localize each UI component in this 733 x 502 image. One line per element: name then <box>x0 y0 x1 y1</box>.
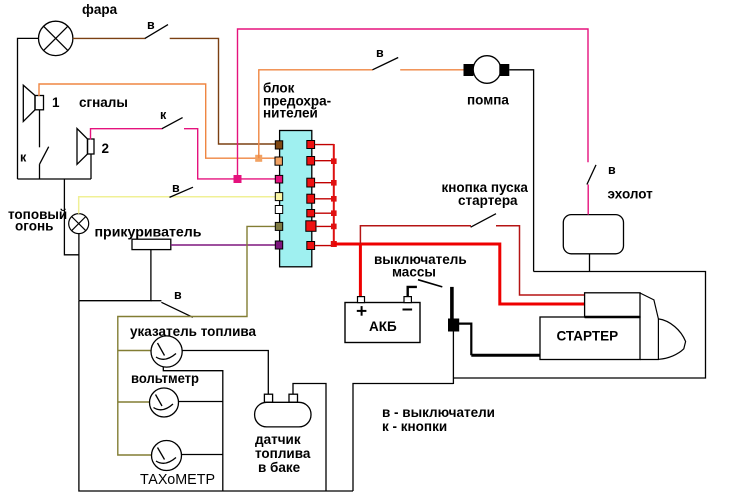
wire right ground loop <box>453 272 705 379</box>
wire magenta riser to echo sounder line <box>238 29 589 175</box>
wire red stubs to bus <box>315 145 334 246</box>
node black square <box>448 319 459 332</box>
wire thick black to node <box>450 287 454 320</box>
starter СТАРТЕР body <box>540 317 640 360</box>
wire magenta button2 to fuse <box>184 129 275 179</box>
mass switch blade <box>418 280 442 287</box>
tank sender left terminal <box>264 394 272 402</box>
svg-text:указатель топлива: указатель топлива <box>130 324 257 339</box>
speaker 2 сигнал <box>77 129 94 165</box>
fuse input terminal 4 yellow <box>275 193 282 201</box>
fuse input terminal 7 purple <box>275 241 282 249</box>
wire to gauges switch <box>151 300 162 302</box>
wire dark red button to solenoid <box>496 226 585 295</box>
junction squares on red bus <box>331 158 337 247</box>
junction magenta <box>234 175 242 183</box>
wire tank sender right to ground <box>293 384 326 492</box>
svg-text:вольтметр: вольтметр <box>131 371 199 386</box>
wire speaker1 bottom to button <box>39 110 41 148</box>
fuse input terminal 3 magenta <box>275 175 282 183</box>
wire red bus vertical <box>333 144 335 244</box>
switch В3 gauges blade <box>161 302 192 317</box>
svg-text:массы: массы <box>392 265 436 280</box>
svg-text:сгналы: сгналы <box>79 95 128 110</box>
button К1 blade <box>40 147 49 164</box>
tank sender right terminal <box>289 394 298 402</box>
battery minus terminal <box>404 297 411 303</box>
wire orange pump branch <box>259 70 373 158</box>
svg-text:датчик: датчик <box>255 432 301 447</box>
svg-text:СТАРТЕР: СТАРТЕР <box>557 329 619 344</box>
svg-text:к: к <box>20 151 27 165</box>
svg-text:АКБ: АКБ <box>369 319 397 334</box>
svg-text:к: к <box>160 108 167 122</box>
button К3 пуска стартера blade <box>471 214 496 228</box>
svg-text:к - кнопки: к - кнопки <box>382 419 447 434</box>
svg-text:нителей: нителей <box>263 106 318 121</box>
pump помпа motor <box>473 56 501 84</box>
wire red battery feed <box>359 244 362 297</box>
svg-text:в: в <box>174 288 182 302</box>
gauge тахометр <box>152 441 182 471</box>
svg-text:топлива: топлива <box>255 446 311 461</box>
svg-text:в: в <box>608 163 616 177</box>
gauge вольтметр <box>150 388 179 417</box>
switch В4 помпа blade <box>373 58 399 70</box>
starter nose cone <box>658 319 685 359</box>
wire voltmeter to ground riser <box>179 401 223 403</box>
svg-text:прикуриватель: прикуриватель <box>95 225 202 240</box>
svg-text:огонь: огонь <box>15 219 53 234</box>
svg-text:в: в <box>147 18 155 32</box>
wire signal ground bus <box>18 178 92 180</box>
wire thick ground to starter <box>471 354 540 357</box>
wire left rail down to bottom bus <box>79 301 353 491</box>
wire orange switch to pump <box>400 69 464 71</box>
wire tachometer to ground riser <box>182 454 223 456</box>
wire button1 to ground bus <box>39 164 41 179</box>
cigarette lighter прикуриватель <box>132 239 171 249</box>
lamp HL1 фара <box>39 21 73 55</box>
fuse output terminals red <box>307 141 315 149</box>
speaker 1 сигнал <box>23 85 43 121</box>
wire red main feed thick <box>334 244 585 304</box>
echo sounder эхолот <box>563 215 623 254</box>
fuel tank sender датчик топлива <box>255 402 311 427</box>
wire purple lighter to fuse <box>171 244 275 246</box>
fuse input terminal 1 brown <box>275 141 282 149</box>
starter solenoid bottom thick <box>585 316 640 319</box>
wire fuel gauge to tank sender <box>182 351 268 395</box>
wire node to starter ground <box>459 324 471 356</box>
wire yellow top light to fuse <box>79 197 276 214</box>
lamp HL2 топовый огонь <box>69 214 89 234</box>
wire brown switch to fuse block <box>170 38 276 144</box>
svg-text:эхолот: эхолот <box>608 187 654 202</box>
wire lamp2 bottom to left rail <box>78 234 80 301</box>
svg-text:в: в <box>376 46 384 60</box>
pump right terminal <box>499 64 509 76</box>
wire node down <box>452 332 454 385</box>
switch В1 фара blade <box>145 25 168 39</box>
fuse input terminal 6 olive <box>275 222 282 230</box>
svg-text:стартера: стартера <box>458 193 518 208</box>
fuse block блок предохранителей <box>280 131 312 267</box>
starter solenoid <box>585 293 640 317</box>
gauge указатель топлива <box>151 336 182 367</box>
switch В2 топовый blade <box>170 187 194 197</box>
svg-text:ТАХоМЕТР: ТАХоМЕТР <box>140 471 215 488</box>
plus symbol <box>357 306 412 316</box>
wire magenta speaker2 to button <box>91 129 163 140</box>
fuse input terminal 5 white <box>275 206 282 214</box>
mass switch выключатель массы <box>408 287 417 297</box>
button К2 blade <box>162 118 183 129</box>
wire ground link riser <box>353 384 453 492</box>
wire ground drop to top light <box>64 179 79 255</box>
wire fuel gauge bottom to ground riser <box>163 367 223 491</box>
svg-text:2: 2 <box>102 141 110 156</box>
svg-text:1: 1 <box>52 95 60 110</box>
starter nose band <box>640 293 658 360</box>
wire фара brown to switch <box>73 37 146 39</box>
wire magenta switch to echo sounder <box>587 185 589 215</box>
wire dark red to starter button <box>360 226 471 244</box>
svg-text:в - выключатели: в - выключатели <box>382 405 495 420</box>
fuse input terminal 2 orange <box>275 157 282 165</box>
svg-text:помпа: помпа <box>467 93 509 108</box>
wire echo sounder ground <box>589 254 591 272</box>
wire lighter bottom to switch line <box>79 250 151 301</box>
wire pump ground <box>509 70 533 272</box>
battery АКБ <box>345 303 420 343</box>
wire olive stub fuel gauge <box>118 350 151 352</box>
orange junction pump branch <box>255 155 262 162</box>
battery plus terminal <box>358 297 365 303</box>
svg-text:фара: фара <box>82 2 118 17</box>
wire lamp left to left rail <box>18 38 39 179</box>
wire olive stub voltmeter <box>118 401 150 403</box>
pump left terminal <box>464 64 474 76</box>
wire orange speaker1 to fuse <box>39 84 275 158</box>
svg-text:в: в <box>172 181 180 195</box>
switch В5 эхолот blade <box>587 165 596 185</box>
wire speaker2 bottom to ground bus <box>90 154 92 179</box>
wire olive fuse to gauges <box>118 226 275 455</box>
svg-text:в баке: в баке <box>258 460 301 475</box>
